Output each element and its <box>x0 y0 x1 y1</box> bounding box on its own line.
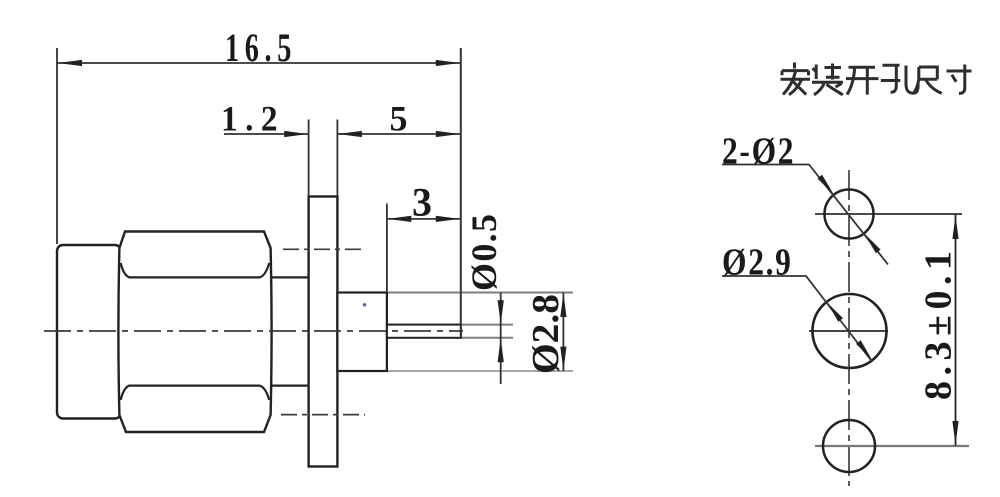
svg-text:Ø2.9: Ø2.9 <box>722 241 793 283</box>
svg-text:1.2: 1.2 <box>221 98 285 138</box>
svg-text:2-Ø2: 2-Ø2 <box>722 130 795 172</box>
svg-text:5: 5 <box>390 99 408 139</box>
svg-text:Ø0.5: Ø0.5 <box>464 212 504 291</box>
svg-text:3: 3 <box>412 180 432 225</box>
svg-text:16.5: 16.5 <box>225 25 297 70</box>
svg-text:Ø2.8: Ø2.8 <box>525 294 567 374</box>
